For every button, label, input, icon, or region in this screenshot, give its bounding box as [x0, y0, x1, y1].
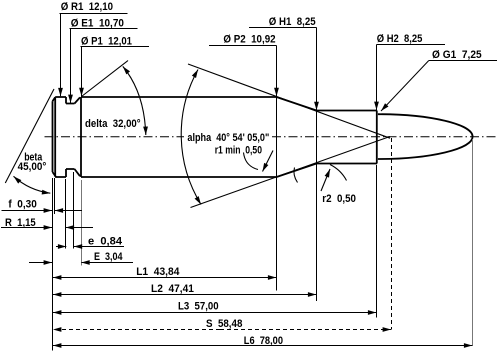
svg-text:Ø H1 8,25: Ø H1 8,25 [269, 16, 316, 28]
svg-text:L1 43,84: L1 43,84 [136, 266, 180, 278]
svg-text:r2 0,50: r2 0,50 [322, 193, 356, 205]
svg-text:alpha 40° 54' 05,0": alpha 40° 54' 05,0" [187, 132, 269, 144]
svg-text:Ø P2 10,92: Ø P2 10,92 [223, 34, 275, 46]
svg-text:R 1,15: R 1,15 [5, 217, 36, 229]
svg-text:Ø R1 12,10: Ø R1 12,10 [61, 1, 113, 13]
svg-text:S 58,48: S 58,48 [206, 318, 242, 330]
svg-text:L3 57,00: L3 57,00 [178, 301, 219, 313]
svg-text:45,00°: 45,00° [18, 161, 47, 173]
svg-text:e 0,84: e 0,84 [88, 235, 123, 247]
svg-text:L2 47,41: L2 47,41 [151, 283, 194, 295]
svg-text:Ø P1 12,01: Ø P1 12,01 [81, 35, 132, 47]
svg-text:Ø H2 8,25: Ø H2 8,25 [377, 33, 423, 45]
svg-text:f 0,30: f 0,30 [8, 199, 36, 211]
svg-text:L6 78,00: L6 78,00 [244, 335, 283, 347]
svg-text:Ø G1 7,25: Ø G1 7,25 [432, 49, 482, 61]
svg-text:delta 32,00°: delta 32,00° [85, 118, 141, 130]
svg-text:Ø E1 10,70: Ø E1 10,70 [71, 18, 124, 30]
svg-text:E 3,04: E 3,04 [94, 251, 123, 263]
svg-text:r1 min 0,50: r1 min 0,50 [215, 145, 262, 157]
